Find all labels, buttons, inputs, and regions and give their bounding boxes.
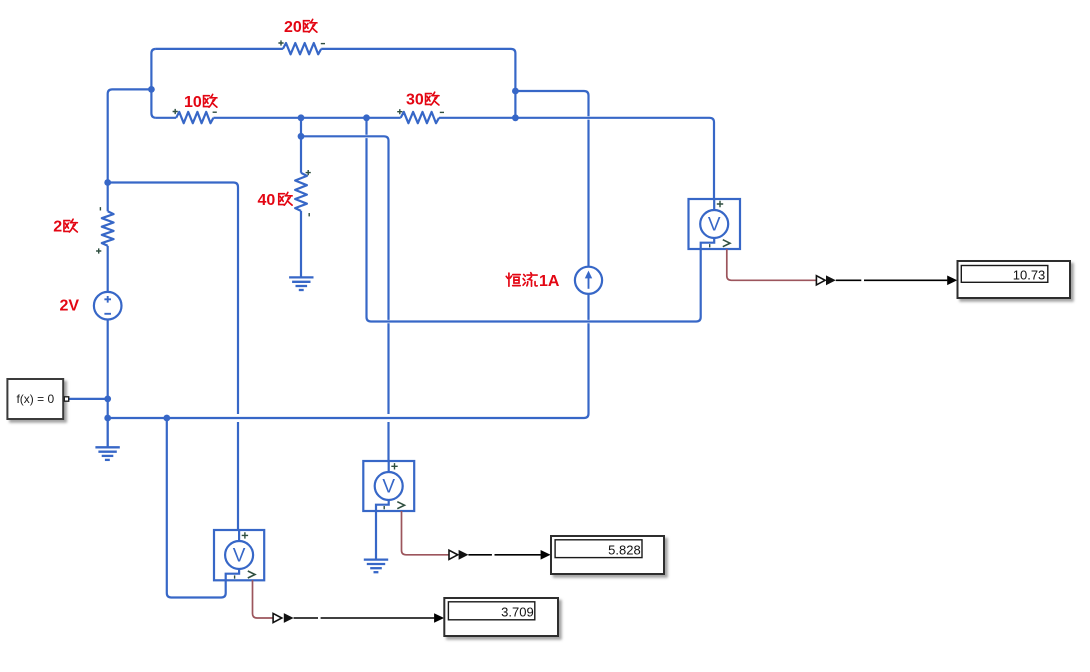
node dot at x301 y117.8 <box>298 114 305 121</box>
wire: top row left segment to resistor 20ohm <box>156 48 283 50</box>
node dot at x151.4 y89.4 <box>148 86 155 93</box>
wire: resistor 40ohm to ground G2 <box>300 211 302 278</box>
label 2欧 <box>53 219 77 236</box>
resistor 10欧 plus mark <box>173 109 178 114</box>
junction node dots <box>104 86 519 421</box>
ground G1 (main) <box>95 418 119 460</box>
wire: resistor 40ohm branch from node b <box>300 136 302 173</box>
voltage source 2V circle <box>94 292 122 320</box>
resistor 30欧 zigzag <box>401 112 439 123</box>
ground G3 (under voltmeter U2) <box>364 560 388 573</box>
display D3 value 3.709 <box>444 598 558 636</box>
wire: node b to voltmeter U2 top <box>301 136 389 461</box>
node dot at x107.7 y398.9 <box>104 396 111 403</box>
resistor 30欧 plus mark <box>397 109 402 114</box>
svg-text:3.709: 3.709 <box>501 605 534 620</box>
display D1 value 10.73 <box>958 261 1071 298</box>
wire: second row right segment down to voltmeter U1 <box>439 118 714 199</box>
wire: node-a hook from x107.7 to x151.4 at y89.4 <box>108 89 152 182</box>
label 恒流1A <box>506 273 560 290</box>
PS-Simulink converter T3 <box>273 613 294 623</box>
wire: node b down-step segment x301 <box>300 118 302 137</box>
arrowhead into display D2 <box>541 550 551 560</box>
wire: solver block to node 0 <box>69 398 108 400</box>
resistor 10欧 minus mark <box>213 111 217 113</box>
node dot at x366.5 y117.8 <box>363 114 370 121</box>
wire: vertical x107.7 above resistor 2ohm <box>107 183 109 212</box>
voltmeter U3 (bottom left) <box>214 530 264 580</box>
ground G2 (under 40ohm) <box>289 277 313 290</box>
svg-text:f(x) = 0: f(x) = 0 <box>16 392 54 406</box>
label 2V <box>60 298 80 315</box>
svg-text:V: V <box>382 476 395 497</box>
wire: voltmeter U2 bottom to ground G3 <box>375 511 377 560</box>
node dot at x301 y136.3 <box>298 133 305 140</box>
signal wire T2 to display D2 <box>468 554 540 556</box>
label 20欧 <box>284 19 317 36</box>
wire: vertical x151.4 between top row and second row <box>151 49 156 118</box>
resistor 30欧 minus mark <box>440 111 444 113</box>
PS-Simulink converter T1 <box>816 275 835 285</box>
resistor 20欧 minus mark <box>321 43 325 45</box>
svg-text:V: V <box>708 214 721 235</box>
svg-text:5.828: 5.828 <box>608 542 641 557</box>
arrowhead into display D1 <box>947 276 957 286</box>
label 10欧 <box>184 94 217 111</box>
display D2 value 5.828 <box>551 536 664 574</box>
resistor 40欧 minus mark <box>308 213 310 216</box>
wire: node a to voltmeter U3 top <box>108 183 238 531</box>
signal wire T3 to display D3 <box>294 617 435 619</box>
resistor 2欧 zigzag <box>102 211 114 246</box>
node dot at x166.8 y418 <box>163 415 170 422</box>
wire: voltage source bottom to ground bus <box>107 320 109 419</box>
wire: node c to current source top <box>515 91 588 267</box>
wire: resistor 2ohm to voltage source <box>107 246 109 292</box>
resistor 10欧 zigzag <box>176 112 213 123</box>
PS-Simulink converter T2 <box>449 550 468 560</box>
current source 1A circle <box>575 267 602 294</box>
solver configuration block f(x)=0 <box>7 379 68 419</box>
resistor 2欧 minus mark <box>99 207 101 210</box>
label 40欧 <box>258 192 293 209</box>
arrowhead into display D3 <box>434 613 444 623</box>
node dot at x515.4 y91 <box>512 88 519 95</box>
svg-text:V: V <box>233 545 246 566</box>
svg-text:10: 10 <box>184 94 202 111</box>
wire: ground bus branch to voltmeter U3 bottom <box>167 418 226 598</box>
physical signal wire from U3 to converter T3 <box>253 580 273 618</box>
svg-text:1A: 1A <box>539 273 560 290</box>
label 30欧 <box>406 92 439 109</box>
resistor 40欧 plus mark <box>306 170 311 175</box>
svg-text:40: 40 <box>258 192 276 209</box>
wire: second row middle segment to resistor 30ohm <box>213 117 400 119</box>
svg-text:2V: 2V <box>60 298 80 315</box>
signal wire T1 to display D1 <box>836 279 948 281</box>
resistor 2欧 plus mark <box>96 248 101 253</box>
resistor 20欧 plus mark <box>278 40 283 45</box>
svg-text:20: 20 <box>284 19 302 36</box>
wire: current source bottom down to ground bus <box>108 294 589 418</box>
svg-text:2: 2 <box>53 219 62 236</box>
resistor 40欧 zigzag <box>295 173 307 211</box>
node dot at x107.7 y418 <box>104 415 111 422</box>
wire: second row from x151 to resistor 10ohm <box>156 117 176 119</box>
resistor 20欧 zigzag <box>283 43 321 54</box>
svg-text:10.73: 10.73 <box>1013 268 1046 283</box>
node dot at x107.7 y182.5 <box>104 179 111 186</box>
physical signal wire from U2 to converter T2 <box>402 511 449 555</box>
svg-text:30: 30 <box>406 92 424 109</box>
wire: node b to voltmeter U1 bottom <box>367 118 701 322</box>
physical signal wire from U1 to converter T1 <box>727 249 816 280</box>
node dot at x515.4 y117.8 <box>512 114 519 121</box>
wire: top row right segment down to node c <box>321 49 515 118</box>
voltmeter U2 (middle) <box>363 461 414 511</box>
voltmeter U1 (top right) <box>689 199 741 249</box>
